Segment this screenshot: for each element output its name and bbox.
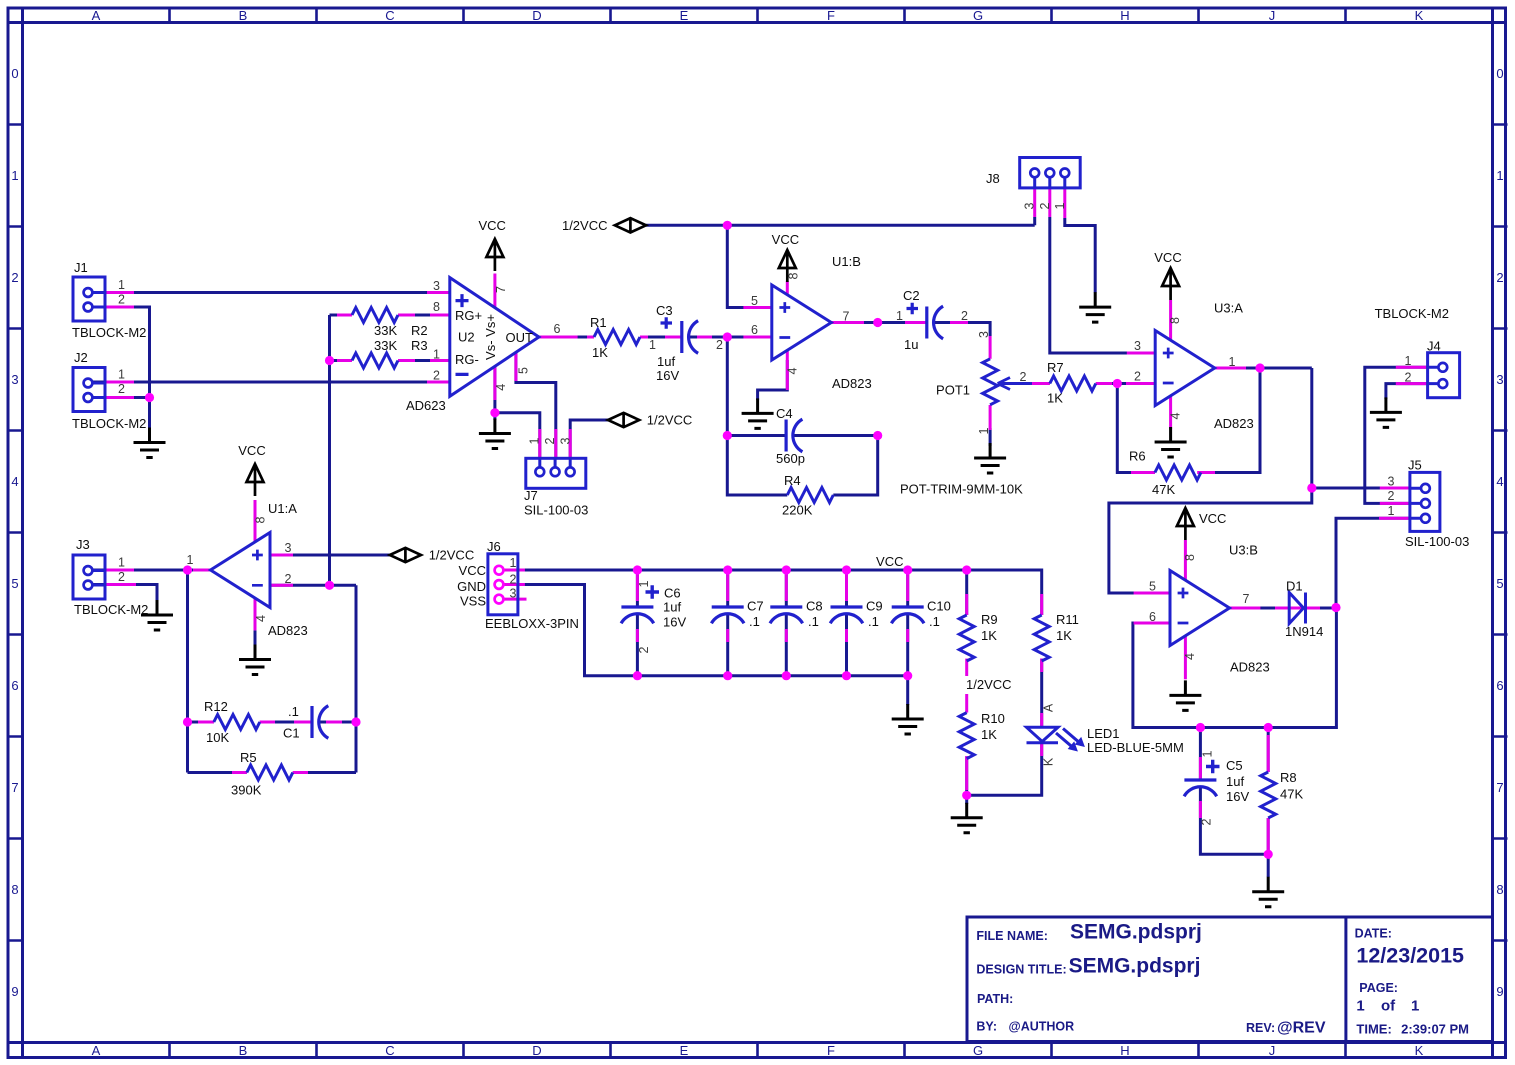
svg-text:2: 2 [285,572,292,586]
svg-text:1K: 1K [1056,628,1072,643]
svg-text:J: J [1269,8,1276,23]
svg-text:C1: C1 [283,726,300,741]
svg-text:1: 1 [649,338,656,352]
svg-text:TBLOCK-M2: TBLOCK-M2 [72,325,146,340]
resistor R7 [1047,360,1096,406]
svg-text:TBLOCK-M2: TBLOCK-M2 [74,602,148,617]
junction [723,221,732,230]
LED LED1 [1027,703,1184,766]
svg-text:.1: .1 [868,614,879,629]
svg-text:FILE NAME:: FILE NAME: [976,929,1048,943]
svg-text:AD823: AD823 [1230,660,1270,675]
svg-text:TIME:: TIME: [1356,1022,1391,1037]
svg-text:2: 2 [716,338,723,352]
svg-text:3: 3 [1134,339,1141,353]
svg-text:C3: C3 [656,303,673,318]
svg-text:@AUTHOR: @AUTHOR [1009,1020,1075,1034]
capacitor C9 [830,599,882,630]
svg-text:G: G [973,8,983,23]
title block [967,917,1493,1042]
junction [1264,723,1273,732]
power VCC [772,232,799,282]
power 1/2VCC terminal [608,413,692,428]
svg-text:Vs- Vs+: Vs- Vs+ [483,314,498,360]
svg-text:33K: 33K [374,323,397,338]
ground [742,398,774,428]
svg-text:SEMG.pdsprj: SEMG.pdsprj [1070,921,1202,944]
junction [1255,363,1264,372]
svg-text:1/2VCC: 1/2VCC [429,548,475,563]
junction [782,671,791,680]
svg-text:A: A [92,8,101,23]
wire POT1 wiper to R7 [998,382,1050,385]
svg-text:9: 9 [1496,984,1503,999]
junction [903,565,912,574]
svg-text:R8: R8 [1280,770,1297,785]
svg-text:1: 1 [528,437,542,444]
ground [1370,397,1402,427]
svg-text:AD623: AD623 [406,398,446,413]
wire U1B feedback loop [727,337,877,495]
power VCC [1177,508,1227,540]
power VCC [478,218,505,271]
svg-text:C2: C2 [903,288,920,303]
svg-text:U2: U2 [458,330,475,345]
svg-text:5: 5 [751,294,758,308]
power VCC [238,443,265,496]
svg-text:of: of [1381,998,1396,1015]
svg-text:K: K [1415,1043,1424,1058]
ground [141,600,173,630]
wire J2.1 to U2.2 [92,381,450,384]
pin stubs [105,188,1428,850]
wire J4.1 to J5.2 [1365,367,1428,503]
svg-text:2: 2 [118,570,125,584]
junction [490,408,499,417]
svg-text:K: K [1415,8,1424,23]
svg-text:VSS: VSS [460,594,486,609]
svg-text:VCC: VCC [238,443,265,458]
capacitor C8 [770,599,823,630]
junction [842,671,851,680]
capacitor C3 [649,303,723,383]
svg-text:2: 2 [1405,371,1412,385]
resistor R4 [782,473,833,518]
junction [1307,483,1316,492]
power 1/2VCC terminal [562,218,646,233]
svg-text:U3:A: U3:A [1214,301,1243,316]
svg-text:SIL-100-03: SIL-100-03 [524,503,588,518]
junction [633,671,642,680]
ground [1079,292,1111,322]
wire J1.2 down [92,307,150,398]
svg-text:47K: 47K [1280,787,1303,802]
svg-text:7: 7 [843,310,850,324]
ground [892,704,924,734]
svg-text:1: 1 [1496,168,1503,183]
junction [325,581,334,590]
potentiometer POT1 [900,331,1032,497]
wire U3B.7 through D1 [1230,607,1337,610]
svg-text:G: G [973,1043,983,1058]
svg-text:1: 1 [1053,202,1067,209]
svg-text:J5: J5 [1408,458,1422,473]
svg-text:2: 2 [118,382,125,396]
svg-text:8: 8 [254,516,268,523]
junction [962,791,971,800]
svg-text:1K: 1K [1047,391,1063,406]
svg-text:D1: D1 [1286,579,1303,594]
junction [873,318,882,327]
junction [183,565,192,574]
svg-text:R2: R2 [411,323,428,338]
wire U3A.1 to J5.3 and U3B.5 [1109,368,1410,593]
svg-text:TBLOCK-M2: TBLOCK-M2 [72,416,146,431]
junction [145,393,154,402]
svg-text:VCC: VCC [478,218,505,233]
power 1/2VCC terminal [390,548,474,563]
ground [479,419,511,449]
connector J4 [1375,306,1460,398]
svg-text:J7: J7 [524,488,538,503]
resistor R5 [231,750,293,798]
svg-text:8: 8 [433,300,440,314]
svg-text:1K: 1K [592,345,608,360]
svg-text:560p: 560p [776,451,805,466]
wire R11 LED chain [967,659,1042,796]
svg-text:4: 4 [1169,412,1183,419]
wire U1B.7 C2 to POT1 [831,323,990,337]
svg-text:8: 8 [11,882,18,897]
svg-text:U1:A: U1:A [268,501,297,516]
svg-text:R5: R5 [240,750,257,765]
svg-text:1: 1 [1411,998,1419,1015]
svg-text:16V: 16V [663,614,686,629]
svg-text:3: 3 [977,331,991,338]
svg-text:5: 5 [517,367,531,374]
resistor R1 [590,315,640,360]
svg-text:E: E [680,1043,689,1058]
svg-text:1: 1 [118,278,125,292]
wire J4.2 to ground [1386,384,1428,399]
wire J5.1 down [1336,518,1410,607]
junction [962,565,971,574]
ground [951,803,983,833]
resistor R3 [352,338,428,368]
svg-text:1/2VCC: 1/2VCC [562,218,608,233]
junction [723,332,732,341]
wire stubs [150,428,256,646]
svg-text:SIL-100-03: SIL-100-03 [1405,534,1469,549]
svg-text:5: 5 [1496,576,1503,591]
ground [974,443,1006,473]
resistor R10 [959,711,1005,759]
svg-text:2: 2 [1020,370,1027,384]
svg-text:3: 3 [559,437,573,444]
svg-text:1K: 1K [981,727,997,742]
wire VCC rail [503,570,1042,615]
svg-text:VCC: VCC [876,554,903,569]
svg-text:C7: C7 [747,599,764,614]
svg-text:R4: R4 [784,473,801,488]
junction [782,565,791,574]
junction [351,717,360,726]
svg-text:SEMG.pdsprj: SEMG.pdsprj [1069,955,1201,978]
wire POT1 to ground [989,428,992,446]
wire U1B.4 to ground [758,360,788,400]
capacitor C1 [283,704,328,741]
svg-text:H: H [1120,1043,1129,1058]
svg-text:1: 1 [1405,354,1412,368]
svg-text:VCC: VCC [772,232,799,247]
svg-text:1uf: 1uf [1226,774,1244,789]
svg-text:5: 5 [1149,580,1156,594]
svg-text:J1: J1 [74,260,88,275]
wire C8 leads [785,570,788,676]
svg-text:POT-TRIM-9MM-10K: POT-TRIM-9MM-10K [900,482,1023,497]
wire J1.1 to U2.3 [92,291,450,294]
svg-text:J2: J2 [74,350,88,365]
svg-text:1: 1 [637,580,651,587]
svg-text:1: 1 [510,556,517,570]
svg-text:1: 1 [1388,504,1395,518]
svg-text:1: 1 [1229,355,1236,369]
svg-text:2: 2 [1200,818,1214,825]
svg-text:5: 5 [11,576,18,591]
svg-text:EEBLOXX-3PIN: EEBLOXX-3PIN [485,616,579,631]
resistor R9 [959,612,997,661]
svg-text:AD823: AD823 [832,376,872,391]
svg-text:.1: .1 [749,614,760,629]
wire U1A feedback loop [188,585,357,772]
svg-text:R12: R12 [204,699,228,714]
connector J8 [986,158,1080,210]
svg-text:8: 8 [787,272,801,279]
junction [903,671,912,680]
ground [1155,427,1187,457]
svg-text:3: 3 [433,279,440,293]
svg-text:RG-: RG- [455,352,479,367]
resistor R12 [204,699,260,745]
svg-text:J3: J3 [76,537,90,552]
svg-text:16V: 16V [1226,789,1249,804]
diode D1 1N914 [1285,579,1323,640]
junction [633,565,642,574]
wire C10 leads [906,570,909,676]
svg-text:E: E [680,8,689,23]
svg-text:1: 1 [187,553,194,567]
svg-text:3: 3 [1023,202,1037,209]
svg-text:J4: J4 [1427,339,1441,354]
connector J7 [524,437,588,517]
svg-text:D: D [532,1043,541,1058]
svg-text:4: 4 [1183,653,1197,660]
svg-text:4: 4 [1496,474,1503,489]
svg-text:1uf: 1uf [657,354,675,369]
svg-text:7: 7 [1496,780,1503,795]
svg-text:K: K [1042,757,1056,766]
svg-text:RG+: RG+ [455,308,482,323]
ground [134,428,166,458]
junction [1196,723,1205,732]
junction [723,565,732,574]
svg-text:H: H [1120,8,1129,23]
svg-text:6: 6 [1149,610,1156,624]
op-amp U3:B AD823 [1149,543,1270,675]
svg-text:2: 2 [637,646,651,653]
wire C7 leads [726,570,729,676]
svg-text:J6: J6 [487,539,501,554]
capacitor C2 [896,288,968,352]
svg-text:0: 0 [1496,66,1503,81]
wire J7.3 to 1/2VCC [570,420,608,458]
svg-text:1: 1 [11,168,18,183]
svg-text:3: 3 [1496,372,1503,387]
ground [1252,877,1284,907]
svg-text:4: 4 [254,615,268,622]
svg-text:1: 1 [118,556,125,570]
svg-text:2: 2 [1388,489,1395,503]
svg-text:OUT: OUT [506,330,534,345]
svg-text:C: C [385,1043,394,1058]
svg-text:390K: 390K [231,783,262,798]
wire R7 R6 U3A loop [1096,368,1312,473]
junction [723,431,732,440]
junction [1331,603,1340,612]
svg-text:47K: 47K [1152,482,1175,497]
wire U2.OUT R1 C3 to U1B.6 [539,336,772,339]
wire J3.2 to ground [92,585,157,602]
svg-text:REV:: REV: [1246,1021,1275,1035]
wire R3 row [330,359,450,362]
capacitor C4 [776,406,805,466]
svg-text:1: 1 [118,368,125,382]
svg-text:J8: J8 [986,171,1000,186]
svg-text:.1: .1 [288,704,299,719]
wire J8.1 to ground [1065,218,1095,293]
connector J6 [457,539,579,631]
wire C6 leads [636,570,639,676]
svg-text:F: F [827,8,835,23]
svg-text:R9: R9 [981,612,998,627]
svg-text:8: 8 [1168,317,1182,324]
svg-text:VCC: VCC [1154,250,1181,265]
op-amp U3:A AD823 [1134,301,1254,432]
svg-text:2: 2 [118,293,125,307]
svg-text:6: 6 [554,322,561,336]
svg-text:7: 7 [1243,592,1250,606]
svg-text:R10: R10 [981,711,1005,726]
svg-text:VCC: VCC [1199,511,1226,526]
svg-text:2: 2 [1038,202,1052,209]
svg-text:1: 1 [1356,998,1364,1015]
resistor R2 [352,308,428,339]
svg-text:A: A [92,1043,101,1058]
svg-text:1: 1 [433,348,440,362]
svg-text:C9: C9 [866,599,883,614]
svg-text:POT1: POT1 [936,383,970,398]
wire R9 R10 chain [965,570,968,804]
wire U1A.3 to 1/2VCC [270,554,390,557]
junction [723,671,732,680]
svg-text:R1: R1 [590,315,607,330]
capacitor C6 [621,580,686,653]
svg-text:AD823: AD823 [268,623,308,638]
junction [842,565,851,574]
svg-text:2: 2 [1496,270,1503,285]
capacitor C7 [711,599,763,630]
svg-text:1N914: 1N914 [1285,624,1323,639]
svg-text:2: 2 [1134,370,1141,384]
svg-text:8: 8 [1183,554,1197,561]
svg-text:4: 4 [786,367,800,374]
svg-text:1uf: 1uf [663,600,681,615]
svg-text:220K: 220K [782,503,813,518]
connector J3 [73,537,148,617]
svg-text:4: 4 [494,384,508,391]
svg-text:2: 2 [510,572,517,586]
svg-text:LED1: LED1 [1087,726,1120,741]
wire U2.5 to J7.2 [516,353,556,458]
svg-text:.1: .1 [808,614,819,629]
svg-text:0: 0 [11,66,18,81]
ground [1169,680,1201,710]
svg-text:B: B [239,8,248,23]
resistor R11 [1034,612,1079,661]
svg-text:1: 1 [977,427,991,434]
svg-text:12/23/2015: 12/23/2015 [1356,944,1464,968]
svg-text:R7: R7 [1047,360,1064,375]
wire R8 branch [1267,728,1270,878]
svg-text:C5: C5 [1226,758,1243,773]
resistor R6 [1129,449,1201,498]
svg-text:C4: C4 [776,406,793,421]
svg-text:2: 2 [961,309,968,323]
wire J2.2 to ground [92,398,150,430]
svg-text:R3: R3 [411,338,428,353]
connector J5 [1388,458,1470,550]
svg-text:AD823: AD823 [1214,416,1254,431]
svg-text:C6: C6 [664,586,681,601]
wire J3.1 to U1A.1 [92,570,211,773]
svg-text:.1: .1 [929,614,940,629]
svg-text:2: 2 [543,437,557,444]
svg-text:A: A [1042,703,1056,712]
svg-text:2: 2 [433,369,440,383]
svg-text:16V: 16V [656,368,679,383]
svg-text:8: 8 [1496,882,1503,897]
power VCC [1154,250,1181,300]
svg-text:3: 3 [510,587,517,601]
svg-text:PATH:: PATH: [977,992,1013,1006]
wire 1/2VCC rail top [646,217,1035,308]
svg-text:VCC: VCC [459,563,486,578]
svg-text:3: 3 [11,372,18,387]
svg-text:TBLOCK-M2: TBLOCK-M2 [1375,306,1449,321]
wire RG loop vertical [330,315,450,585]
svg-text:2:39:07 PM: 2:39:07 PM [1401,1022,1469,1037]
svg-text:2: 2 [11,270,18,285]
svg-text:7: 7 [494,286,508,293]
junction [1264,850,1273,859]
ground [239,645,271,675]
junction [1113,379,1122,388]
svg-text:U1:B: U1:B [832,254,861,269]
svg-text:J: J [1269,1043,1276,1058]
svg-text:C: C [385,8,394,23]
svg-text:1/2VCC: 1/2VCC [966,677,1012,692]
svg-text:D: D [532,8,541,23]
